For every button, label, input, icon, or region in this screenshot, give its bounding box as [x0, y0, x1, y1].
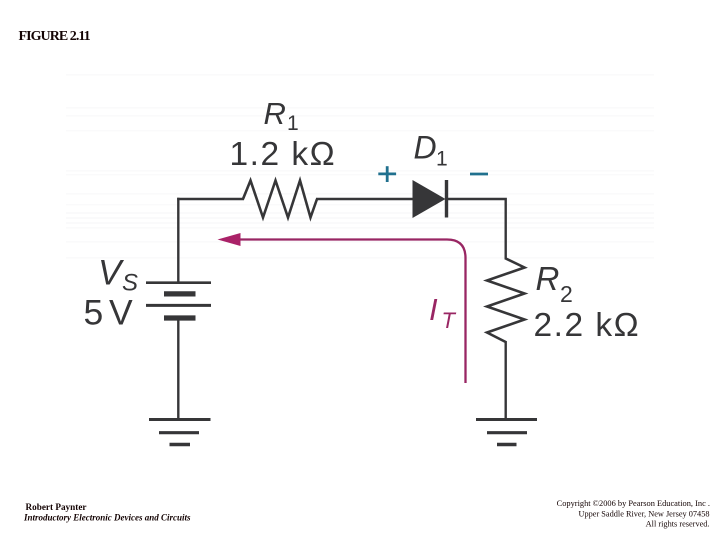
- svg-text:Upper Saddle River, New Jersey: Upper Saddle River, New Jersey 07458: [578, 510, 709, 519]
- wire top-left horizontal (node A to R1): [177, 198, 244, 200]
- resistor R2: [487, 259, 525, 343]
- wire battery to left ground: [177, 318, 179, 419]
- svg-text:1: 1: [436, 148, 448, 171]
- svg-text:2.2 kΩ: 2.2 kΩ: [534, 307, 641, 344]
- svg-text:Introductory Electronic Device: Introductory Electronic Devices and Circ…: [23, 512, 191, 522]
- svg-text:2: 2: [560, 281, 573, 307]
- resistor R1: [243, 181, 317, 218]
- svg-text:V: V: [98, 253, 125, 292]
- wire left vertical (node A down to battery +): [177, 198, 179, 282]
- svg-text:R: R: [264, 96, 286, 131]
- current IT arrow path (magenta): [240, 240, 466, 384]
- svg-text:Copyright ©2006 by Pearson Edu: Copyright ©2006 by Pearson Education, In…: [557, 499, 710, 508]
- svg-text:R: R: [536, 260, 560, 297]
- svg-text:FIGURE 2.11: FIGURE 2.11: [19, 29, 91, 44]
- diode D1 (triangle + cathode bar): [413, 180, 447, 218]
- faint scan bands: [66, 74, 654, 259]
- ground (left): [149, 420, 211, 445]
- svg-text:All rights reserved.: All rights reserved.: [646, 519, 710, 528]
- svg-text:T: T: [442, 308, 457, 333]
- cathode polarity − (blue): [470, 173, 488, 176]
- battery VS (two cells): [146, 283, 211, 318]
- svg-text:1.2 kΩ: 1.2 kΩ: [230, 136, 337, 173]
- ground (right): [476, 420, 537, 445]
- svg-text:V: V: [109, 293, 133, 333]
- svg-text:Robert Paynter: Robert Paynter: [26, 502, 87, 512]
- wire R2 to right ground: [505, 341, 507, 419]
- svg-text:1: 1: [287, 112, 299, 135]
- svg-text:I: I: [429, 292, 438, 327]
- anode polarity + (blue): [378, 166, 396, 182]
- svg-text:5: 5: [84, 293, 104, 333]
- svg-text:D: D: [414, 130, 437, 166]
- wire R1 to diode D1: [316, 198, 414, 200]
- current IT arrowhead: [218, 233, 241, 246]
- wire D1 to top-right corner, down to R2: [448, 199, 506, 260]
